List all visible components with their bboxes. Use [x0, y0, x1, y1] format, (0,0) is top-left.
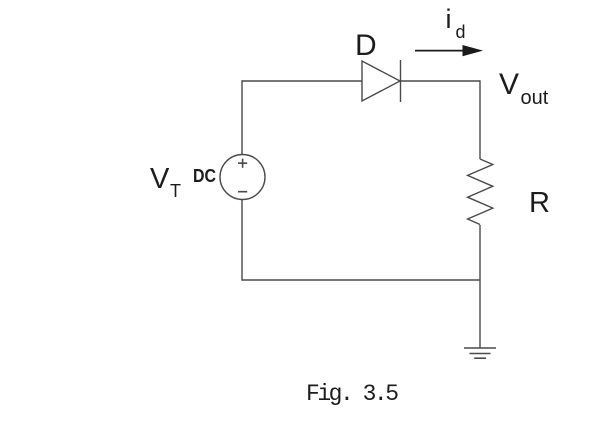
- wire right vertical from resistor bottom to ground: [479, 225, 481, 348]
- wire top horizontal from diode cathode to top-right corner: [400, 80, 480, 82]
- label VT: [150, 163, 181, 201]
- wire top horizontal from source to diode anode: [242, 80, 362, 82]
- svg-text:out: out: [521, 87, 549, 109]
- svg-text:d: d: [456, 22, 466, 42]
- wire left vertical lower (source bottom to circuit bottom): [241, 200, 243, 281]
- svg-text:Fig. 3.5: Fig. 3.5: [306, 381, 399, 407]
- diode D symbol: [362, 60, 401, 102]
- svg-text:i: i: [446, 4, 452, 34]
- label id: [446, 4, 466, 42]
- current arrow id: [415, 45, 483, 56]
- plus sign: [238, 159, 247, 168]
- resistor R zigzag: [468, 159, 493, 225]
- voltage source VT circle: [220, 155, 265, 200]
- svg-text:R: R: [529, 187, 550, 219]
- wire right vertical from corner to resistor top: [479, 80, 481, 159]
- svg-text:V: V: [499, 68, 519, 101]
- minus sign: [238, 191, 247, 193]
- svg-text:D: D: [355, 29, 377, 62]
- ground: [464, 348, 496, 358]
- wire bottom horizontal: [242, 279, 480, 281]
- svg-text:DC: DC: [193, 165, 216, 186]
- svg-text:V: V: [150, 163, 170, 195]
- wire left vertical upper (source top to circuit top): [241, 80, 243, 154]
- label Vout: [499, 68, 549, 109]
- svg-text:T: T: [170, 181, 181, 201]
